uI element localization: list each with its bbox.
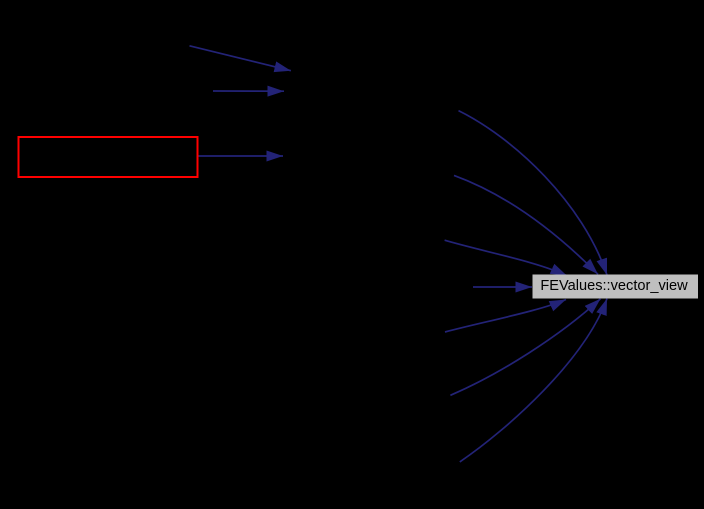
node: FEValues::vector_view	[533, 275, 699, 299]
wire: edge from red node to middle node	[199, 155, 284, 157]
wire: curve 2 into top of FEValues::vector_view	[454, 175, 598, 274]
wire: curve 1 into top of FEValues::vector_view	[459, 111, 608, 275]
wire: curve 4 into bottom-left of FEValues::vector_view	[445, 300, 566, 333]
wire: curve 3 into top-left of FEValues::vector_view	[445, 240, 567, 276]
wire: curve 6 into bottom of FEValues::vector_view	[460, 299, 607, 462]
wire: straight edge into left of FEValues::vector_view	[473, 286, 532, 288]
wire: edge into upper middle node (diagonal)	[190, 46, 291, 71]
svg-text:FEValues::vector_view: FEValues::vector_view	[540, 278, 688, 294]
node: current node (red box, empty/black)	[19, 137, 198, 177]
wire: edge into middle node (horizontal, upper)	[213, 90, 284, 92]
wire: curve 5 into bottom of FEValues::vector_view	[450, 299, 600, 396]
